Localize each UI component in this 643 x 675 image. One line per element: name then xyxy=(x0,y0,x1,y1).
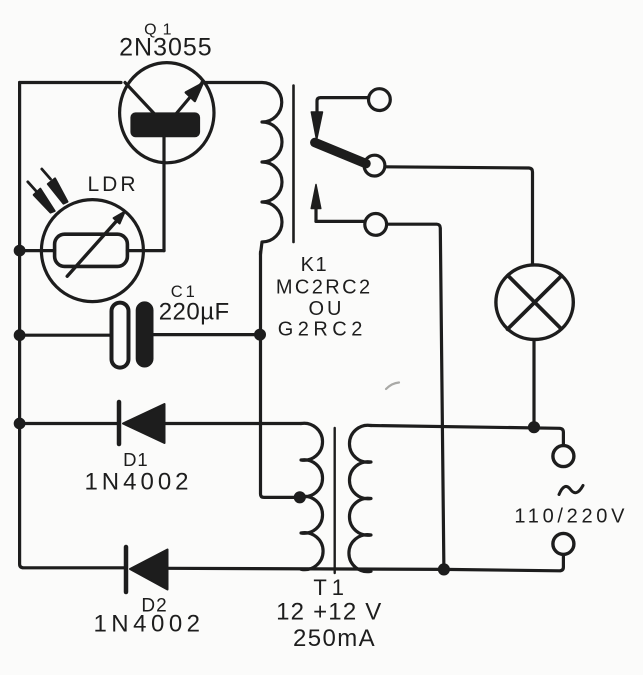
AC symbol ~ xyxy=(559,486,583,495)
relay armature xyxy=(315,143,366,164)
wire: LDR left lead xyxy=(20,249,55,252)
wire: bottom run D2 to AC source corner xyxy=(168,555,564,571)
relay terminal common (middle) xyxy=(364,155,385,176)
node: lamp / transformer secondary top wire xyxy=(528,422,539,433)
svg-text:110/220V: 110/220V xyxy=(514,505,628,527)
svg-text:1N4002: 1N4002 xyxy=(93,611,204,638)
svg-text:12 +12 V: 12 +12 V xyxy=(276,598,382,625)
wire: C1 right lead to coil line xyxy=(153,333,260,336)
wire: secondary top to AC source xyxy=(371,426,563,446)
node: bottom contact wire / bottom run xyxy=(438,564,449,575)
svg-text:2N3055: 2N3055 xyxy=(119,34,213,62)
svg-text:T1: T1 xyxy=(313,575,349,600)
node: left rail / C1 xyxy=(14,330,25,341)
transformer T1 secondary winding xyxy=(349,425,371,571)
capacitor C1 xyxy=(112,302,154,368)
wire: top rail to Q1 base xyxy=(20,81,121,84)
svg-text:G2RC2: G2RC2 xyxy=(278,318,367,340)
wire: C1 left lead xyxy=(20,334,112,337)
wire: Q1 emitter down to LDR node xyxy=(162,136,165,251)
AC terminal bottom xyxy=(553,533,574,554)
relay terminal bottom xyxy=(365,214,387,236)
svg-text:LDR: LDR xyxy=(88,173,139,196)
wire: NO contact (bottom) with arrow xyxy=(311,185,365,222)
svg-text:OU: OU xyxy=(309,298,345,320)
node: center tap xyxy=(294,492,305,503)
diode D2 xyxy=(126,547,168,592)
wire: common contact to lamp xyxy=(385,167,533,265)
wire: D1 to transformer primary top xyxy=(165,422,302,425)
relay terminal top xyxy=(369,89,391,111)
transistor Q1 xyxy=(120,63,214,163)
relay core line xyxy=(292,86,295,243)
LDR xyxy=(41,200,143,302)
lamp xyxy=(496,265,573,340)
node: C1 / relay coil line xyxy=(255,329,266,340)
svg-text:D1: D1 xyxy=(123,449,149,470)
scan smudge xyxy=(386,383,399,390)
svg-text:220µF: 220µF xyxy=(159,299,230,326)
wire: left rail with bottom corner xyxy=(20,83,124,568)
wire: lamp bottom to AC top wire xyxy=(532,340,535,428)
node: left rail / D1 xyxy=(14,418,25,429)
node: left rail / LDR xyxy=(14,245,25,256)
wire: NC contact (top) with arrow xyxy=(311,98,368,140)
transformer T1 primary winding xyxy=(301,423,323,569)
transformer T1 core xyxy=(334,428,336,573)
AC terminal top xyxy=(553,446,574,467)
svg-text:MC2RC2: MC2RC2 xyxy=(276,276,373,298)
svg-text:1N4002: 1N4002 xyxy=(84,469,192,496)
relay coil K1 xyxy=(202,83,282,255)
wire: coil bottom to transformer center tap xyxy=(261,252,300,497)
diode D1 xyxy=(119,402,165,444)
svg-text:K1: K1 xyxy=(301,254,328,276)
wire: LDR right lead xyxy=(127,249,164,252)
wire: D1 left lead xyxy=(20,422,117,425)
light arrow 1 xyxy=(42,169,68,204)
wire: bottom contact down to bottom run xyxy=(387,224,444,569)
svg-text:250mA: 250mA xyxy=(293,625,376,652)
light arrow 2 xyxy=(28,182,55,213)
